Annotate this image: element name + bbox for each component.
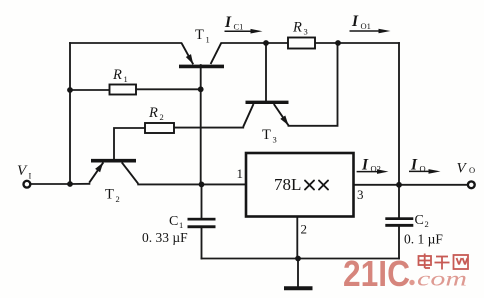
node left rail / R1 (67, 87, 73, 93)
svg-text:1: 1 (124, 74, 128, 84)
current arrow IC1 (224, 14, 263, 34)
wire T3 emitter to top junction (289, 43, 338, 126)
node left rail / input (67, 181, 73, 187)
svg-text:0. 1 µF: 0. 1 µF (404, 232, 443, 247)
node Vo label (457, 161, 476, 177)
wire left rail (69, 43, 71, 184)
svg-text:C: C (415, 213, 424, 228)
resistor R3 (288, 20, 315, 49)
svg-text:com: com (417, 267, 467, 291)
svg-text:1: 1 (237, 166, 244, 181)
svg-text:V: V (457, 161, 468, 177)
wire regulator pin 2 vertical (296, 217, 298, 259)
wire right rail lower (398, 226, 400, 258)
svg-text:2: 2 (116, 194, 120, 204)
resistor R1 (110, 67, 137, 95)
current arrow IO (409, 157, 441, 174)
wire T1 base vertical (200, 65, 202, 184)
svg-text:I: I (224, 14, 232, 31)
svg-text:C: C (169, 214, 178, 229)
svg-text:C1: C1 (234, 22, 244, 32)
op-amp U1 regulator 78Lxx box (246, 153, 354, 217)
wire T2 collector left (70, 183, 89, 185)
svg-text:R: R (112, 67, 122, 83)
wire T2 emitter to regulator pin 1 (138, 183, 246, 185)
transistor T2 (89, 161, 138, 204)
wire right rail upper (398, 43, 400, 218)
wire R1 right (136, 88, 201, 90)
watermark dianziwang characters (419, 254, 469, 270)
capacitor C1 (142, 214, 216, 245)
svg-text:2: 2 (301, 222, 308, 237)
svg-text:3: 3 (273, 135, 277, 145)
svg-text:T: T (105, 187, 114, 203)
svg-text:T: T (195, 27, 204, 43)
wire R2 right to T3 left leg (174, 127, 243, 129)
svg-text:O1: O1 (361, 21, 371, 31)
svg-text:V: V (17, 163, 28, 179)
node pin1 / C1 (199, 182, 205, 188)
wire regulator pin 3 to output node (354, 184, 399, 186)
wire top-left horizontal (70, 42, 181, 44)
wire R1 left (70, 89, 110, 91)
wire top right (R3 to right corner) (315, 42, 399, 44)
svg-text:I: I (29, 171, 32, 181)
ground (284, 286, 313, 290)
watermark 21IC (343, 253, 415, 294)
wire top middle (T1 collector to R3) (222, 42, 289, 44)
wire bottom rail (202, 258, 400, 260)
wire C1 bottom lead (201, 228, 203, 259)
current arrow IO2 (357, 157, 389, 174)
svg-text:R: R (148, 105, 158, 121)
transistor T3 (243, 102, 288, 144)
svg-text:78L: 78L (274, 175, 301, 194)
transistor T1 (179, 27, 224, 66)
capacitor C2 (385, 213, 443, 247)
svg-text:O: O (469, 165, 475, 175)
svg-text:2: 2 (425, 219, 429, 229)
wire ground stem (297, 259, 299, 288)
resistor R2 (145, 105, 174, 133)
svg-text:I: I (351, 13, 359, 30)
svg-text:0. 33 µF: 0. 33 µF (142, 230, 188, 245)
current arrow IO1 (350, 13, 391, 33)
node bottom rail / pin2 (295, 256, 301, 262)
svg-text:3: 3 (304, 27, 308, 37)
svg-text:2: 2 (160, 112, 164, 122)
svg-text:T: T (262, 127, 271, 143)
node top wire / T3 emitter (335, 40, 341, 46)
node top wire / T3 base (263, 40, 269, 46)
node R1 / T1 base (198, 86, 204, 92)
svg-text:3: 3 (357, 187, 364, 202)
svg-text:R: R (292, 20, 302, 36)
input terminal (24, 181, 31, 188)
wire output node to terminal (399, 184, 468, 186)
wire T3 base vertical (265, 43, 267, 101)
svg-text:1: 1 (206, 35, 210, 45)
wire C1 top lead (201, 184, 203, 218)
wire R2 left and down to T2 base (114, 128, 145, 160)
output terminal (468, 181, 475, 188)
node Vi label (17, 163, 32, 181)
node output (396, 182, 402, 188)
wire input terminal to left rail (30, 183, 70, 185)
svg-text:1: 1 (179, 220, 183, 230)
